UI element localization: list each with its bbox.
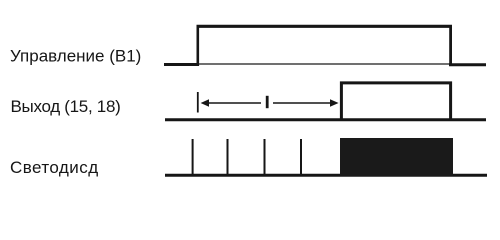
LED on solid bar <box>340 138 453 177</box>
output pulse outline <box>341 83 450 119</box>
node A: delay start tick <box>197 92 199 113</box>
wire: row1 low level right segment <box>449 63 486 66</box>
wire: row2 baseline <box>165 118 486 121</box>
wire: row1 falling edge <box>449 25 452 66</box>
blink tick 1 <box>192 139 194 174</box>
label t (delay time) <box>266 96 269 108</box>
svg-text:Светодисд: Светодисд <box>10 158 99 177</box>
wire: row3 baseline <box>165 174 487 177</box>
wire: row1 low level left segment <box>164 63 199 66</box>
blink tick 4 <box>300 139 302 174</box>
wire: row1 thin baseline under pulse <box>198 63 451 65</box>
wire: left dimension arrow line <box>203 102 261 104</box>
blink tick 3 <box>264 139 266 174</box>
left arrowhead of delay dimension <box>201 99 209 107</box>
wire: row1 pulse top level <box>197 25 453 28</box>
wire: row1 rising edge at node A <box>197 25 200 66</box>
svg-text:Управление (В1): Управление (В1) <box>10 47 141 66</box>
right arrowhead of delay dimension <box>330 99 339 107</box>
svg-text:Выход (15, 18): Выход (15, 18) <box>11 97 121 116</box>
wire: right dimension arrow line <box>273 102 331 104</box>
blink tick 2 <box>227 139 229 174</box>
